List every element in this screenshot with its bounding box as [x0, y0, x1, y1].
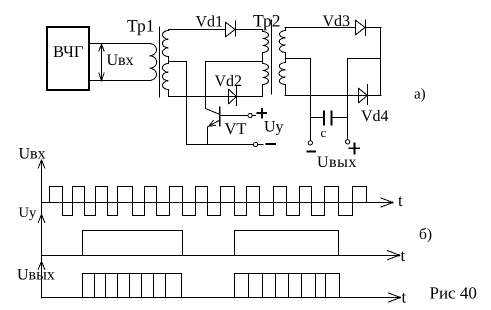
wire Vd1 to Тр2 primary top — [236, 30, 263, 32]
Тр2 secondary center tap wire to minus output — [286, 59, 311, 141]
transistor VT — [206, 62, 220, 145]
diode Vd4 — [359, 85, 368, 105]
diode Vd3 — [356, 20, 366, 36]
Uвх time axis — [42, 198, 394, 207]
svg-text:t: t — [402, 288, 407, 307]
plus output branch from right rail — [348, 59, 381, 140]
Uвх axis arrowhead — [38, 160, 45, 168]
svg-text:Vd1: Vd1 — [196, 14, 224, 31]
wire Тр1 center tap down to bottom rail — [169, 62, 187, 145]
output terminal plus — [346, 140, 360, 154]
output terminal minus — [307, 141, 315, 152]
capacitor c plates — [311, 111, 348, 125]
Uу axis arrowhead — [38, 215, 45, 223]
Uвх square wave — [50, 187, 367, 216]
control terminal minus — [254, 142, 276, 146]
bottom rail emitter to minus terminal — [187, 144, 254, 146]
svg-text:Vd3: Vd3 — [323, 13, 351, 30]
Тр1 core — [159, 27, 161, 97]
wire ВЧГ bottom to Тр1 primary — [89, 80, 150, 82]
wire Тр1 secondary top to diode Vd1 — [168, 29, 225, 31]
svg-text:Uвых: Uвых — [317, 154, 357, 171]
wire ВЧГ top to Тр1 primary — [89, 43, 150, 45]
Uу control pulse 1 — [83, 231, 183, 256]
svg-text:а): а) — [414, 87, 426, 103]
svg-text:Uвх: Uвх — [19, 146, 46, 163]
transformer Тр1 primary winding — [150, 44, 157, 81]
wire collector to Тр2 primary tap — [205, 61, 262, 63]
Uвых axis arrowhead — [38, 262, 45, 270]
wire Тр2 secondary top to diode Vd3 — [285, 27, 355, 29]
svg-text:Vd4: Vd4 — [361, 108, 389, 125]
base wire to control terminal — [220, 115, 248, 117]
diode Vd1 — [226, 21, 236, 37]
svg-text:Uу: Uу — [264, 119, 284, 136]
Uвых pulse burst 1 — [83, 274, 182, 298]
Тр2 secondary upper winding — [279, 28, 285, 63]
svg-text:Рис 40: Рис 40 — [430, 284, 477, 303]
shared vertical axis line — [41, 160, 43, 298]
Тр2 secondary lower winding and bottom lead — [279, 63, 285, 96]
Uвых pulse burst 2 — [235, 274, 340, 298]
control terminal plus — [248, 109, 266, 118]
svg-text:t: t — [398, 191, 403, 210]
diode Vd2 — [229, 86, 237, 105]
svg-text:Vd2: Vd2 — [215, 73, 243, 90]
Uвх measurement arrow — [99, 44, 104, 81]
svg-text:Тр1: Тр1 — [127, 16, 155, 36]
Тр2 primary upper winding — [263, 32, 269, 64]
Тр2 core — [271, 20, 273, 94]
svg-text:б): б) — [419, 226, 432, 243]
wire Vd3 to right rail — [365, 27, 381, 29]
Uу time axis — [42, 251, 400, 260]
Тр1 secondary lower winding and bottom lead — [162, 64, 168, 97]
wire Тр2 secondary bottom through Vd4 — [285, 95, 381, 97]
Uвых time axis — [42, 293, 401, 302]
Тр1 secondary upper winding — [162, 30, 168, 64]
svg-text:Тр2: Тр2 — [253, 11, 281, 31]
svg-text:Uу: Uу — [19, 205, 37, 221]
svg-text:VT: VT — [225, 119, 247, 138]
Uу control pulse 2 — [235, 231, 339, 256]
Тр2 primary lower winding and bottom lead — [263, 64, 269, 97]
svg-text:Uвх: Uвх — [107, 52, 134, 69]
right rail cathode junction — [380, 28, 382, 95]
svg-text:ВЧГ: ВЧГ — [53, 42, 83, 61]
generator ВЧГ box — [47, 27, 89, 90]
wire Тр1 bottom to Vd2 to Тр2 primary bottom — [168, 96, 262, 98]
svg-text:t: t — [401, 246, 406, 265]
svg-text:Uвых: Uвых — [17, 267, 55, 284]
svg-text:c: c — [321, 125, 327, 140]
